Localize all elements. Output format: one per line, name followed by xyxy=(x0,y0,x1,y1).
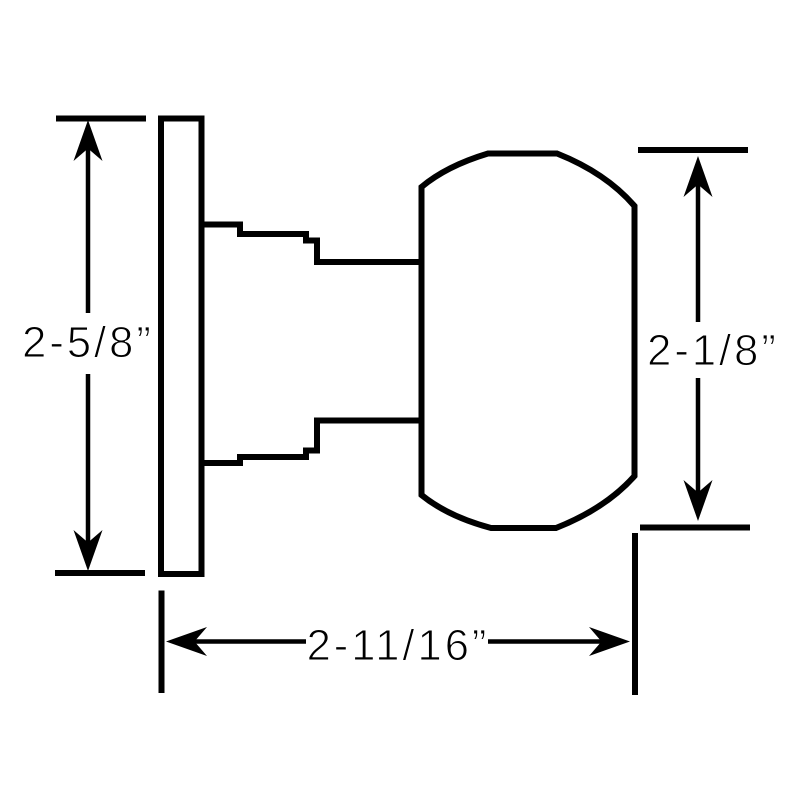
svg-text:2-1/8”: 2-1/8” xyxy=(647,327,779,375)
svg-text:2-5/8”: 2-5/8” xyxy=(22,319,154,367)
svg-text:2-11/16”: 2-11/16” xyxy=(307,622,490,670)
